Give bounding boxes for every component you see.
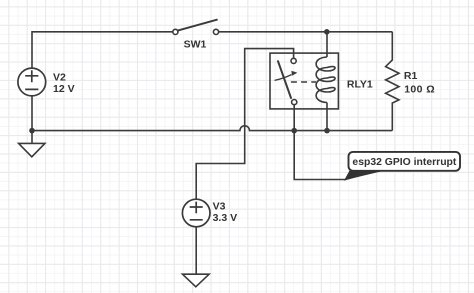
wire coil bottom lead (326, 103, 328, 131)
wire top rail V2 to SW1 (32, 32, 173, 68)
label V2 12 V (53, 72, 75, 95)
label RLY1 (347, 78, 373, 90)
node junction V2 ground (29, 128, 35, 134)
wire V3 bottom lead (195, 227, 197, 274)
relay coupling dashed line (291, 81, 316, 83)
label SW1 (184, 39, 207, 51)
svg-text:SW1: SW1 (184, 39, 207, 51)
resistor R1 (386, 32, 399, 131)
wire GPIO signal (294, 131, 346, 180)
wire bottom rail with hop over V3 wire (32, 126, 392, 131)
node junction top coil branch (324, 29, 330, 35)
annotation callout tail (344, 170, 390, 181)
svg-text:esp32 GPIO interrupt: esp32 GPIO interrupt (352, 157, 456, 168)
wire relay switch bottom lead (293, 105, 295, 131)
svg-text:RLY1: RLY1 (347, 78, 373, 90)
ground GND1 (19, 131, 45, 157)
voltage source V3 (182, 199, 210, 227)
wire V2 bottom lead (31, 96, 33, 130)
svg-text:3.3 V: 3.3 V (213, 212, 238, 224)
wire top rail SW1 to R1 (219, 31, 393, 33)
wire coil top lead (326, 32, 328, 57)
svg-text:R1: R1 (404, 70, 418, 82)
wire V3 to relay switch top (196, 49, 293, 200)
annotation callout esp32 GPIO interrupt (349, 152, 461, 171)
relay switch contacts (278, 58, 297, 104)
svg-text:12 V: 12 V (53, 83, 75, 95)
voltage source V2 (18, 68, 46, 96)
relay RLY1 box (270, 53, 338, 109)
svg-text:V2: V2 (53, 72, 66, 84)
label R1 100 ohm (404, 70, 435, 96)
svg-text:100 Ω: 100 Ω (404, 84, 435, 96)
switch SW1 (173, 20, 219, 35)
svg-text:V3: V3 (213, 201, 226, 213)
relay coil L1 (316, 57, 335, 103)
ground GND2 (183, 274, 210, 287)
relay actuator arrow (275, 71, 298, 81)
node junction switch bottom rail (291, 128, 297, 134)
node junction coil bottom rail (324, 128, 330, 134)
label V3 3.3 V (213, 201, 238, 225)
